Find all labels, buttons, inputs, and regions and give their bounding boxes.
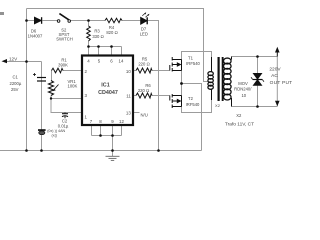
MOV varistor (251, 74, 264, 86)
wire bottom ground rail (0, 150, 202, 152)
transistor Q2 IRF540 (170, 94, 182, 108)
wire second line D6/S2 (27, 20, 35, 22)
svg-text:0.01µ: 0.01µ (58, 123, 69, 128)
svg-text:820 Ω: 820 Ω (106, 30, 117, 35)
svg-text:11: 11 (126, 94, 131, 99)
svg-text:IRF540: IRF540 (186, 61, 200, 66)
svg-text:13: 13 (126, 111, 131, 116)
wire R1 to pin2 (63, 70, 82, 72)
wire pin12 down (121, 125, 123, 136)
wire R6 to T2 gate (152, 95, 170, 97)
wire IC top bus (89, 46, 122, 48)
wire VR1 node down to pin1 (51, 99, 82, 113)
12V input arrow (2, 59, 8, 63)
svg-text:220V: 220V (269, 66, 281, 72)
svg-text:2200µ: 2200µ (10, 81, 22, 86)
output arrow 220V (275, 47, 280, 107)
svg-text:AC: AC (271, 73, 278, 79)
wire pin10 to R5 (133, 70, 136, 72)
wire 12V input (5, 61, 42, 63)
svg-text:12: 12 (119, 119, 124, 124)
wire T1 drain to transformer top (182, 52, 212, 60)
svg-text:N/U: N/U (141, 112, 148, 117)
svg-text:390K: 390K (58, 62, 68, 67)
wire R3 top stub (88, 21, 90, 27)
wire R5 to T1 gate (152, 70, 170, 72)
transformer X2 secondary winding (224, 57, 232, 107)
wire IC bottom bus (92, 135, 122, 137)
wire top rail 12V (27, 9, 210, 82)
svg-text:220 Ω: 220 Ω (138, 88, 149, 93)
svg-text:C1: C1 (13, 74, 19, 79)
svg-text:10: 10 (241, 93, 246, 98)
transformer core (218, 57, 220, 101)
transistor Q1 IRF540 (170, 57, 182, 72)
wire transformer secondary top lead (232, 56, 278, 58)
wire pin4 (88, 47, 90, 57)
capacitor C2 (62, 113, 68, 119)
wire pin6 (111, 47, 113, 57)
svg-text:(x(): (x() (52, 133, 58, 137)
LED D7 (141, 12, 150, 24)
svg-text:12V: 12V (9, 56, 18, 61)
IC U1 CD4047 box (82, 56, 133, 126)
wire pin9 down (112, 125, 114, 136)
svg-text:100K: 100K (68, 84, 78, 89)
svg-text:X2: X2 (236, 113, 242, 118)
resistor R1 (52, 68, 64, 73)
wire pin11 to R6 (133, 95, 136, 97)
wire C1 branch vertical (41, 62, 43, 151)
svg-text:X2: X2 (215, 103, 221, 108)
wire VR1 bottom to pin3 (51, 96, 82, 99)
svg-text:10: 10 (126, 69, 131, 74)
svg-text:T1: T1 (188, 56, 194, 61)
svg-text:220 Ω: 220 Ω (138, 62, 149, 67)
wire T2 source to transformer bottom (182, 100, 212, 113)
svg-text:IRF540: IRF540 (186, 102, 200, 107)
wire left vertical 12V feed (26, 9, 28, 151)
svg-text:SWITCH: SWITCH (56, 37, 73, 42)
wire after LED down to ground (148, 21, 159, 151)
wire pin7 down (91, 125, 93, 136)
svg-text:MOV: MOV (238, 81, 248, 86)
wire T1 source to common node (181, 71, 183, 96)
wire common node to ground (182, 84, 202, 151)
svg-text:R3: R3 (94, 29, 100, 34)
wire pin5 (98, 47, 100, 57)
capacitor C3 blob (38, 129, 46, 135)
wire transformer secondary bottom lead (232, 106, 278, 108)
svg-text:330 Ω: 330 Ω (92, 34, 103, 39)
svg-text:CD4047: CD4047 (98, 90, 118, 96)
svg-text:LED: LED (140, 32, 148, 37)
ground symbol (106, 151, 120, 161)
svg-text:RDN240/: RDN240/ (234, 86, 252, 91)
artifact mark top-left (0, 12, 4, 15)
resistor R3 (87, 26, 91, 41)
wire pin14 (121, 47, 123, 57)
resistor R4 (105, 18, 122, 22)
resistor R5 (136, 68, 152, 73)
svg-text:T2: T2 (188, 96, 194, 101)
wire R3 bottom stub to bus (88, 41, 90, 47)
svg-text:OUT PUT: OUT PUT (270, 80, 293, 86)
svg-text:IC1: IC1 (101, 83, 109, 89)
wire MOV vertical (257, 57, 259, 107)
transformer X2 primary winding (208, 57, 213, 100)
wire pin8 down (100, 125, 102, 136)
svg-text:1N4007: 1N4007 (28, 34, 43, 39)
wire output right vertical (276, 57, 278, 107)
junction node dots (25, 19, 259, 152)
resistor R6 (136, 93, 152, 98)
svg-text:14: 14 (119, 59, 124, 64)
svg-text:25V: 25V (11, 87, 19, 92)
wire pin13 stub N/U (133, 112, 140, 114)
svg-text:Trafo 11V, CT: Trafo 11V, CT (225, 122, 254, 128)
wire R1 left corner down to VR1 (51, 71, 53, 81)
wire IC ground drop (112, 136, 114, 151)
potentiometer VR1 (49, 81, 59, 96)
switch S2 (57, 14, 70, 23)
diode D6 (35, 17, 42, 24)
capacitor C1 (33, 73, 46, 81)
